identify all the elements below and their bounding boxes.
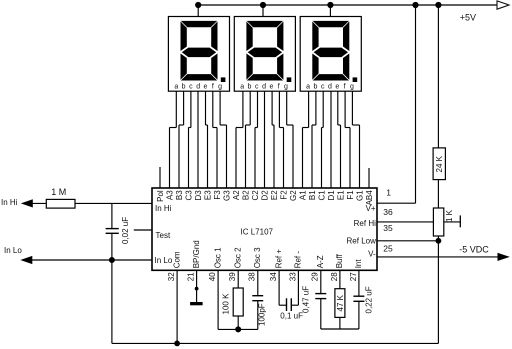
svg-text:A1: A1 — [298, 190, 307, 200]
svg-text:c: c — [255, 84, 259, 91]
svg-text:1: 1 — [386, 187, 391, 197]
svg-text:b: b — [182, 84, 186, 91]
svg-text:Buff: Buff — [335, 253, 344, 268]
svg-text:E3: E3 — [203, 190, 212, 200]
svg-text:Com: Com — [172, 251, 181, 268]
svg-text:E1: E1 — [336, 190, 345, 200]
svg-text:40: 40 — [208, 272, 217, 281]
svg-text:c: c — [321, 84, 325, 91]
svg-text:28: 28 — [330, 272, 339, 281]
svg-text:A3: A3 — [165, 190, 174, 200]
svg-text:C1: C1 — [317, 190, 326, 201]
svg-text:In Hi: In Hi — [155, 204, 172, 213]
svg-text:f: f — [344, 84, 346, 91]
svg-text:1 M: 1 M — [51, 187, 66, 197]
svg-text:36: 36 — [383, 207, 393, 217]
svg-text:b: b — [248, 84, 252, 91]
svg-text:Ref +: Ref + — [274, 249, 283, 269]
svg-text:24 K: 24 K — [435, 155, 444, 172]
svg-text:35: 35 — [383, 223, 393, 233]
svg-text:38: 38 — [248, 272, 257, 281]
svg-text:Osc 2: Osc 2 — [233, 247, 242, 268]
svg-text:In Lo: In Lo — [4, 246, 22, 255]
svg-text:Pol: Pol — [156, 190, 165, 202]
svg-text:BP/Gnd: BP/Gnd — [192, 240, 201, 268]
svg-text:D1: D1 — [327, 190, 336, 201]
svg-text:V+: V+ — [366, 204, 376, 213]
svg-text:In Hi: In Hi — [1, 198, 18, 207]
svg-text:39: 39 — [228, 272, 237, 281]
svg-text:G2: G2 — [289, 190, 298, 201]
svg-text:Int: Int — [354, 259, 363, 269]
svg-text:d: d — [328, 84, 332, 91]
svg-text:0,1 uF: 0,1 uF — [280, 312, 303, 321]
svg-text:A-Z: A-Z — [316, 255, 325, 268]
svg-text:100pF: 100pF — [257, 303, 266, 326]
svg-text:f: f — [278, 84, 280, 91]
svg-text:0,02 uF: 0,02 uF — [121, 217, 130, 244]
svg-text:D2: D2 — [260, 190, 269, 201]
svg-text:0,22 uF: 0,22 uF — [364, 286, 373, 313]
svg-text:E2: E2 — [270, 190, 279, 200]
svg-text:Ref -: Ref - — [294, 251, 303, 269]
svg-text:Ref Low: Ref Low — [347, 236, 377, 245]
svg-text:33: 33 — [288, 272, 297, 281]
svg-text:G3: G3 — [222, 190, 231, 201]
svg-text:a: a — [174, 84, 178, 91]
svg-text:34: 34 — [269, 272, 278, 281]
svg-text:e: e — [204, 84, 208, 91]
svg-text:0,47 uF: 0,47 uF — [302, 286, 311, 313]
svg-text:+5V: +5V — [460, 13, 476, 23]
svg-text:27: 27 — [349, 272, 358, 281]
svg-text:Osc 1: Osc 1 — [213, 247, 222, 268]
svg-text:29: 29 — [311, 272, 320, 281]
svg-text:F1: F1 — [346, 190, 355, 200]
svg-text:V-: V- — [368, 250, 376, 259]
svg-text:C3: C3 — [184, 190, 193, 201]
svg-text:F3: F3 — [213, 190, 222, 200]
svg-text:Test: Test — [156, 231, 171, 240]
svg-text:d: d — [262, 84, 266, 91]
svg-text:e: e — [269, 84, 273, 91]
svg-text:a: a — [240, 84, 244, 91]
svg-text:Osc 3: Osc 3 — [253, 247, 262, 268]
svg-text:a: a — [306, 84, 310, 91]
svg-text:f: f — [212, 84, 214, 91]
svg-text:b: b — [313, 84, 317, 91]
svg-text:32: 32 — [167, 272, 176, 281]
svg-text:A2: A2 — [232, 190, 241, 200]
svg-text:G1: G1 — [355, 190, 364, 201]
svg-text:100 K: 100 K — [222, 293, 231, 315]
svg-text:In Lo: In Lo — [155, 256, 173, 265]
svg-text:e: e — [335, 84, 339, 91]
svg-text:D3: D3 — [194, 190, 203, 201]
svg-text:47 K: 47 K — [336, 294, 345, 311]
svg-text:B1: B1 — [308, 190, 317, 200]
svg-text:IC L7107: IC L7107 — [241, 227, 274, 236]
svg-text:25: 25 — [383, 243, 393, 253]
svg-text:Ref Hi: Ref Hi — [354, 219, 376, 228]
svg-text:c: c — [189, 84, 193, 91]
svg-text:1 K: 1 K — [445, 209, 454, 222]
svg-text:B2: B2 — [241, 190, 250, 200]
svg-text:g: g — [284, 84, 288, 91]
svg-text:F2: F2 — [279, 190, 288, 200]
svg-text:g: g — [218, 84, 222, 91]
svg-text:21: 21 — [187, 272, 196, 281]
svg-text:C2: C2 — [251, 190, 260, 201]
svg-text:d: d — [196, 84, 200, 91]
svg-text:g: g — [350, 84, 354, 91]
svg-text:B3: B3 — [175, 190, 184, 200]
svg-text:-5 VDC: -5 VDC — [459, 244, 489, 254]
